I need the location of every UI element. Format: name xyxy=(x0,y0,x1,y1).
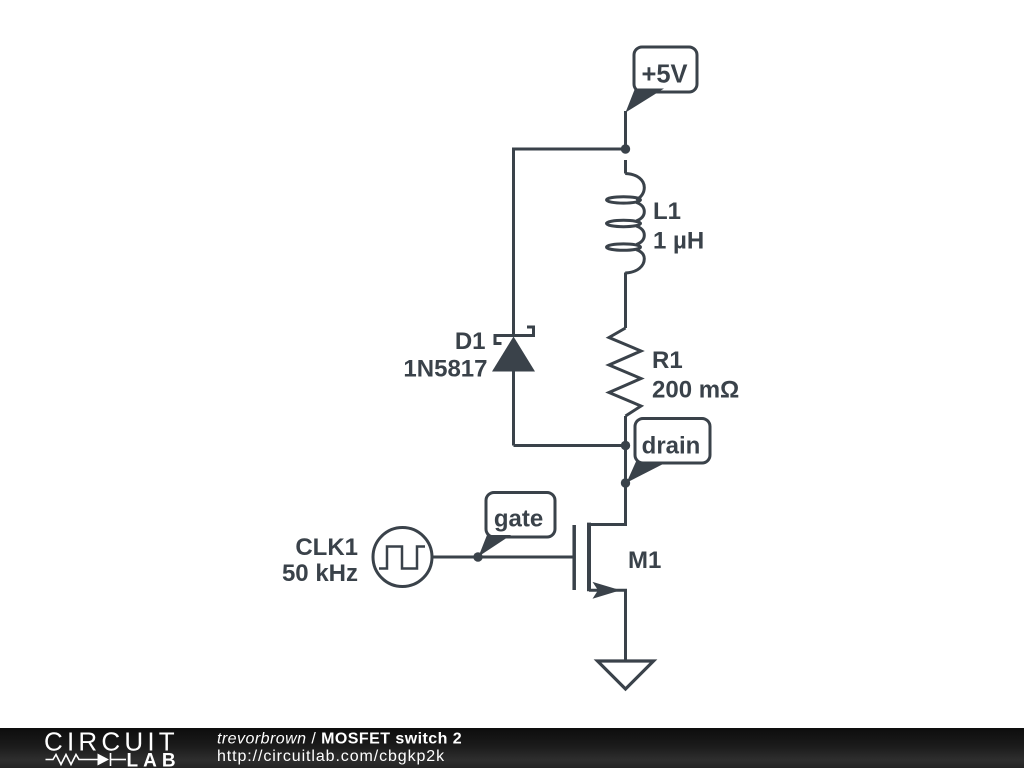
transistor M1 channel bar xyxy=(587,523,591,592)
node below drain label xyxy=(621,478,630,487)
diode D1 anode triangle xyxy=(492,337,535,372)
wire top horizontal xyxy=(514,148,626,151)
source CLK1 square wave xyxy=(379,547,425,569)
svg-text:D1: D1 xyxy=(455,328,486,355)
wire bottom horizontal to drain node xyxy=(514,444,626,447)
svg-text:1N5817: 1N5817 xyxy=(403,356,487,383)
svg-text:+5V: +5V xyxy=(641,60,687,88)
source CLK1 circle xyxy=(373,528,432,587)
wire resistor to mosfet drain xyxy=(588,416,626,525)
svg-text:M1: M1 xyxy=(628,547,661,574)
net label drain xyxy=(627,419,711,483)
resistor R1 zigzag xyxy=(609,328,641,416)
svg-text:trevorbrown / MOSFET switch 2: trevorbrown / MOSFET switch 2 xyxy=(217,731,462,748)
transistor M1 gate bar xyxy=(572,525,576,590)
logo resistor diode glyph xyxy=(46,753,127,766)
net label gate xyxy=(479,493,556,557)
inductor L1 coil xyxy=(607,160,645,273)
node top junction xyxy=(621,144,630,153)
node drain junction xyxy=(621,441,630,450)
svg-text:gate: gate xyxy=(494,506,543,533)
svg-text:1 µH: 1 µH xyxy=(653,228,704,255)
transistor M1 arrow xyxy=(593,582,621,599)
transistor M1 source lead xyxy=(589,590,626,661)
wire gate xyxy=(432,556,574,559)
net label +5V xyxy=(626,47,698,113)
svg-text:LAB: LAB xyxy=(127,751,181,768)
diode D1 cathode schottky bar xyxy=(495,327,534,344)
svg-text:drain: drain xyxy=(642,433,701,460)
svg-text:http://circuitlab.com/cbgkp2k: http://circuitlab.com/cbgkp2k xyxy=(217,748,445,765)
wire +5V to node xyxy=(624,111,627,149)
wire left vertical lower xyxy=(512,371,515,446)
svg-text:CLK1: CLK1 xyxy=(295,534,358,561)
svg-text:L1: L1 xyxy=(653,198,681,225)
svg-text:200 mΩ: 200 mΩ xyxy=(652,377,739,404)
footer bar xyxy=(0,727,1024,768)
svg-text:R1: R1 xyxy=(652,347,683,374)
svg-text:50 kHz: 50 kHz xyxy=(282,560,358,587)
wire inductor to resistor xyxy=(624,273,627,329)
node gate junction xyxy=(473,552,482,561)
wire left vertical upper xyxy=(512,148,515,335)
ground symbol xyxy=(598,661,654,689)
